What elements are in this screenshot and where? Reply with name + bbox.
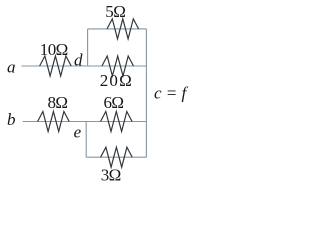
svg-text:8Ω: 8Ω [48,93,68,112]
svg-text:b: b [7,110,16,129]
svg-text:d: d [74,51,83,70]
svg-text:e: e [74,123,82,142]
svg-text:3Ω: 3Ω [101,165,121,184]
svg-text:10Ω: 10Ω [40,40,68,59]
svg-text:c = f: c = f [154,83,189,102]
svg-text:5Ω: 5Ω [105,2,125,21]
svg-text:a: a [7,58,16,77]
svg-text:20Ω: 20Ω [100,71,133,90]
svg-text:6Ω: 6Ω [104,93,124,112]
